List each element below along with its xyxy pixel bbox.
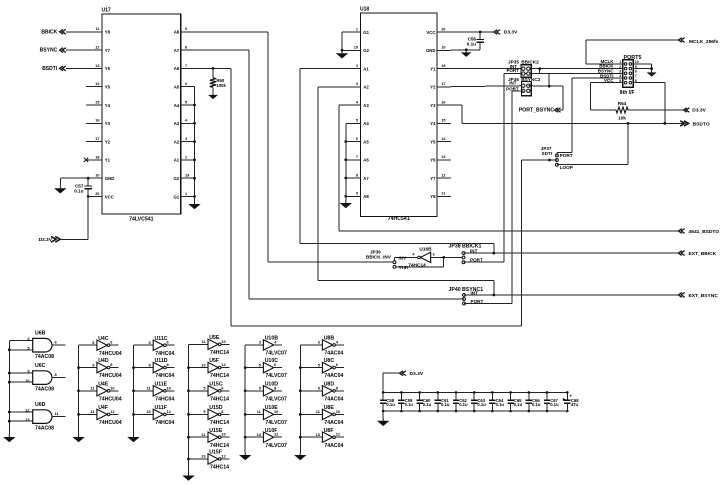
svg-text:20: 20 — [441, 27, 445, 31]
svg-text:Y2: Y2 — [430, 85, 436, 90]
svg-text:EXT_BBICK: EXT_BBICK — [689, 251, 717, 257]
svg-text:0.1u: 0.1u — [477, 402, 486, 407]
svg-text:17: 17 — [441, 82, 445, 86]
svg-text:Y3: Y3 — [430, 103, 436, 108]
svg-text:Y5: Y5 — [430, 139, 436, 144]
svg-text:15: 15 — [441, 119, 445, 123]
svg-text:74HC14: 74HC14 — [210, 373, 229, 379]
svg-text:74AC04: 74AC04 — [324, 396, 343, 402]
svg-text:74HCU04: 74HCU04 — [99, 420, 122, 426]
svg-text:74HC14: 74HC14 — [408, 262, 426, 268]
svg-text:BBICK: BBICK — [41, 29, 57, 35]
svg-text:7: 7 — [635, 74, 637, 78]
svg-text:1: 1 — [356, 27, 358, 31]
svg-text:Y1: Y1 — [430, 66, 436, 71]
svg-text:BBICK2: BBICK2 — [521, 60, 539, 65]
svg-text:Y8: Y8 — [430, 194, 436, 199]
svg-text:D3.3V: D3.3V — [504, 30, 518, 36]
svg-text:4641_BSDTO: 4641_BSDTO — [689, 229, 720, 235]
svg-text:74HC04: 74HC04 — [155, 373, 174, 379]
svg-text:PORT: PORT — [560, 153, 573, 158]
svg-text:18: 18 — [441, 64, 445, 68]
svg-text:0.1u: 0.1u — [441, 402, 450, 407]
svg-text:16: 16 — [441, 100, 445, 104]
svg-text:U11E: U11E — [155, 381, 168, 387]
svg-text:U6B: U6B — [35, 331, 46, 337]
svg-text:A1: A1 — [363, 66, 369, 71]
svg-text:5: 5 — [185, 100, 187, 104]
svg-text:5: 5 — [356, 119, 358, 123]
svg-text:A7: A7 — [363, 176, 369, 181]
svg-text:GND: GND — [105, 176, 115, 181]
svg-text:74HC14: 74HC14 — [210, 420, 229, 426]
svg-text:A4: A4 — [363, 121, 369, 126]
svg-text:74AC08: 74AC08 — [35, 354, 54, 360]
svg-text:15: 15 — [95, 100, 99, 104]
svg-text:D3.3V: D3.3V — [692, 108, 706, 114]
svg-text:74AC04: 74AC04 — [324, 373, 343, 379]
svg-text:8: 8 — [356, 173, 358, 177]
svg-text:INT: INT — [470, 248, 478, 253]
svg-text:Y6: Y6 — [105, 66, 111, 71]
svg-text:INT: INT — [509, 81, 517, 86]
svg-text:19: 19 — [185, 174, 189, 178]
svg-text:G1: G1 — [173, 194, 179, 199]
svg-text:74HC14: 74HC14 — [210, 443, 229, 449]
svg-text:74HCU04: 74HCU04 — [99, 351, 122, 357]
svg-text:EXT_BSYNC: EXT_BSYNC — [689, 293, 719, 299]
svg-text:0.1u: 0.1u — [386, 402, 395, 407]
svg-text:74HC04: 74HC04 — [155, 420, 174, 426]
svg-text:D3.3V: D3.3V — [39, 237, 53, 243]
svg-text:Y3: Y3 — [105, 121, 111, 126]
svg-text:U15C: U15C — [209, 381, 223, 387]
svg-text:6: 6 — [356, 137, 358, 141]
svg-text:11: 11 — [441, 192, 445, 196]
svg-text:74HCU04: 74HCU04 — [99, 396, 122, 402]
svg-text:10k: 10k — [618, 115, 626, 120]
svg-text:A8: A8 — [363, 194, 369, 199]
svg-text:8: 8 — [635, 70, 637, 74]
svg-text:9: 9 — [356, 192, 358, 196]
svg-text:G2: G2 — [173, 176, 179, 181]
svg-text:U11F: U11F — [155, 405, 167, 411]
svg-text:U8C: U8C — [324, 358, 335, 364]
svg-text:JP40 BSYNC1: JP40 BSYNC1 — [449, 287, 484, 293]
svg-text:LOOP: LOOP — [560, 165, 573, 170]
svg-text:3: 3 — [433, 253, 435, 257]
svg-text:SDTI: SDTI — [542, 151, 552, 156]
svg-text:A2: A2 — [174, 139, 180, 144]
svg-text:11: 11 — [95, 27, 99, 31]
svg-text:0.1u: 0.1u — [496, 402, 505, 407]
svg-text:74LVC07: 74LVC07 — [265, 351, 287, 357]
svg-text:74LVC541: 74LVC541 — [129, 217, 154, 223]
svg-text:12: 12 — [95, 46, 99, 50]
svg-text:PORT: PORT — [506, 68, 519, 73]
svg-text:1: 1 — [185, 192, 187, 196]
svg-text:U5F: U5F — [209, 358, 219, 364]
svg-text:Y5: Y5 — [105, 85, 111, 90]
svg-text:Y6: Y6 — [430, 158, 436, 163]
svg-text:74HC541: 74HC541 — [388, 216, 410, 222]
svg-text:U16B: U16B — [419, 247, 432, 253]
svg-text:U10D: U10D — [265, 381, 279, 387]
svg-text:INV: INV — [399, 256, 408, 261]
svg-text:A2: A2 — [363, 85, 369, 90]
svg-text:18: 18 — [95, 155, 99, 159]
svg-text:U4C: U4C — [98, 336, 109, 342]
svg-text:U18: U18 — [360, 7, 369, 13]
svg-text:3: 3 — [185, 137, 187, 141]
svg-text:20: 20 — [95, 192, 99, 196]
svg-text:8th I/F: 8th I/F — [620, 90, 635, 96]
svg-text:A5: A5 — [363, 139, 369, 144]
svg-text:Y7: Y7 — [105, 48, 111, 53]
svg-text:U5E: U5E — [209, 335, 220, 341]
svg-text:A3: A3 — [174, 121, 180, 126]
svg-text:VCC: VCC — [105, 194, 114, 199]
svg-text:10: 10 — [441, 46, 445, 50]
svg-text:12: 12 — [441, 173, 445, 177]
svg-text:D3.3V: D3.3V — [410, 371, 424, 377]
svg-text:A5: A5 — [174, 85, 180, 90]
svg-text:2: 2 — [185, 155, 187, 159]
svg-text:0.1u: 0.1u — [550, 402, 559, 407]
svg-text:74AC08: 74AC08 — [35, 426, 54, 432]
svg-text:74AC08: 74AC08 — [35, 387, 54, 393]
svg-text:U6D: U6D — [35, 402, 46, 408]
svg-text:U10C: U10C — [265, 358, 279, 364]
svg-text:U10B: U10B — [265, 336, 279, 342]
svg-text:7: 7 — [185, 64, 187, 68]
svg-text:16: 16 — [95, 119, 99, 123]
svg-text:17: 17 — [95, 137, 99, 141]
svg-text:0.1u: 0.1u — [514, 402, 523, 407]
svg-text:74HC14: 74HC14 — [210, 350, 229, 356]
svg-text:10: 10 — [110, 385, 114, 390]
svg-text:74AC04: 74AC04 — [324, 420, 343, 426]
svg-text:U15E: U15E — [209, 428, 223, 434]
svg-text:13: 13 — [95, 64, 99, 68]
svg-text:47u: 47u — [571, 402, 579, 407]
svg-text:U4E: U4E — [98, 381, 109, 387]
svg-text:U15D: U15D — [209, 405, 223, 411]
svg-text:74LVC07: 74LVC07 — [265, 373, 287, 379]
svg-text:VCC: VCC — [426, 30, 435, 35]
svg-text:Y4: Y4 — [105, 103, 111, 108]
svg-text:74HC04: 74HC04 — [155, 396, 174, 402]
svg-text:Y4: Y4 — [430, 121, 436, 126]
svg-text:3: 3 — [356, 82, 358, 86]
svg-text:Y1: Y1 — [105, 158, 111, 163]
svg-text:G2: G2 — [363, 48, 369, 53]
svg-text:U10F: U10F — [265, 428, 278, 434]
svg-text:MCLK_256fs: MCLK_256fs — [689, 39, 719, 45]
svg-text:0.1u: 0.1u — [459, 402, 468, 407]
svg-text:6: 6 — [185, 82, 187, 86]
svg-text:Y7: Y7 — [430, 176, 436, 181]
svg-text:0.1u: 0.1u — [423, 402, 432, 407]
svg-text:Y2: Y2 — [105, 139, 111, 144]
svg-text:A1: A1 — [174, 158, 180, 163]
svg-text:A3: A3 — [363, 103, 369, 108]
svg-text:BBICK_INV: BBICK_INV — [366, 255, 392, 260]
svg-text:74HC04: 74HC04 — [155, 351, 174, 357]
svg-text:BSDTI: BSDTI — [42, 66, 58, 72]
svg-text:GND: GND — [426, 48, 436, 53]
svg-text:74LVC07: 74LVC07 — [265, 443, 287, 449]
svg-text:U8F: U8F — [324, 428, 334, 434]
svg-text:U11D: U11D — [155, 358, 168, 364]
svg-text:74HC14: 74HC14 — [210, 396, 229, 402]
svg-text:BSYNC: BSYNC — [40, 48, 58, 54]
svg-text:10: 10 — [221, 339, 225, 344]
svg-text:A6: A6 — [363, 158, 369, 163]
svg-text:U4F: U4F — [98, 405, 108, 411]
svg-text:74HCU04: 74HCU04 — [99, 373, 122, 379]
svg-text:74LVC07: 74LVC07 — [265, 396, 287, 402]
svg-text:10: 10 — [336, 409, 340, 414]
svg-text:A4: A4 — [174, 103, 180, 108]
svg-text:A8: A8 — [174, 30, 180, 35]
svg-text:0.1u: 0.1u — [467, 41, 476, 46]
svg-text:G1: G1 — [363, 30, 369, 35]
svg-text:U15F: U15F — [209, 450, 222, 456]
svg-text:BSDTO: BSDTO — [693, 121, 710, 127]
svg-text:U8B: U8B — [324, 336, 335, 342]
svg-text:8: 8 — [185, 46, 187, 50]
svg-text:100k: 100k — [217, 83, 227, 88]
svg-text:2: 2 — [356, 64, 358, 68]
svg-text:74AC04: 74AC04 — [324, 443, 343, 449]
svg-text:7: 7 — [356, 155, 358, 159]
svg-text:U11C: U11C — [155, 336, 168, 342]
svg-text:74AC04: 74AC04 — [324, 351, 343, 357]
svg-text:19: 19 — [354, 46, 358, 50]
svg-text:U8D: U8D — [324, 381, 335, 387]
svg-text:A7: A7 — [174, 48, 180, 53]
svg-text:PORT_BSYNC: PORT_BSYNC — [519, 108, 555, 114]
svg-text:U17: U17 — [102, 8, 111, 14]
svg-text:U4D: U4D — [98, 358, 109, 364]
svg-text:0.1u: 0.1u — [405, 402, 414, 407]
svg-text:U10E: U10E — [265, 405, 279, 411]
svg-text:10: 10 — [25, 378, 29, 383]
svg-text:9: 9 — [185, 27, 187, 31]
svg-text:U6C: U6C — [35, 363, 46, 369]
svg-text:13: 13 — [441, 155, 445, 159]
svg-text:74HC14: 74HC14 — [210, 465, 229, 471]
svg-text:0.1u: 0.1u — [532, 402, 541, 407]
svg-text:0.1u: 0.1u — [74, 189, 83, 194]
svg-text:74LVC07: 74LVC07 — [265, 420, 287, 426]
svg-text:R64: R64 — [618, 101, 627, 106]
svg-text:10: 10 — [95, 174, 99, 178]
svg-text:Y8: Y8 — [105, 30, 111, 35]
svg-text:U8E: U8E — [324, 405, 335, 411]
svg-text:BSYNC2: BSYNC2 — [521, 77, 540, 82]
svg-text:A6: A6 — [174, 66, 180, 71]
